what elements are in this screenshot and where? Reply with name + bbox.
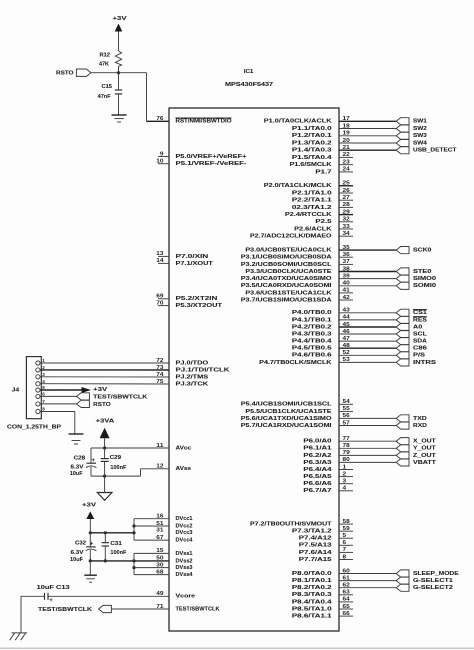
junction DVss rail left [89,559,92,562]
svg-text:G-SELECT2: G-SELECT2 [413,585,454,591]
wire to ground DVss [89,561,91,575]
svg-text:P1.7: P1.7 [315,169,332,175]
svg-text:AVcc: AVcc [176,445,192,451]
junction DVcc rail left [89,531,92,534]
pin 39 P3.4/UCA0TXD/UCA0SIMO [241,273,396,282]
pin 50 DVss2 [156,556,193,565]
pin 12 AVss [156,464,191,473]
pin 23 P1.6/SMCLK [290,160,353,169]
svg-text:41: 41 [343,288,350,294]
J4 pin 4 circle [36,379,45,386]
pin 21 P1.4/TA0.3 [292,145,396,154]
wire J4 pin1 to PJ [40,362,169,364]
svg-text:P3.0/UCB0STE/UCA0CLK: P3.0/UCB0STE/UCA0CLK [245,248,332,254]
svg-text:IC1: IC1 [244,69,254,75]
svg-text:P3.3/UCB0CLK/UCA0STE: P3.3/UCB0CLK/UCA0STE [245,269,331,275]
pin 63 P8.3/TA0.3 [292,590,353,599]
pin 17 P1.0/TA0CLK/ACLK [264,116,396,125]
bus DVss vertical [133,553,135,574]
svg-text:60: 60 [343,568,350,574]
svg-text:CON_1.25TH_BP: CON_1.25TH_BP [7,425,61,431]
analog ground AGND [97,493,112,501]
wire RST0 node [91,72,147,74]
svg-text:100nF: 100nF [110,465,126,471]
svg-text:P7.6/A14: P7.6/A14 [299,550,333,556]
wire DVcc2 stub [134,525,169,527]
svg-text:9: 9 [160,151,164,157]
svg-text:31: 31 [156,528,163,534]
svg-text:CS1: CS1 [413,310,428,316]
connector J4 body [12,357,42,419]
svg-text:AVss: AVss [176,466,192,472]
svg-text:G-SELECT1: G-SELECT1 [413,578,454,584]
wire AVss step [91,469,169,476]
pin 9 P5.0/VREF+/VeREF+ [158,151,247,160]
svg-text:P1.1/TA0.0: P1.1/TA0.0 [292,126,333,132]
svg-text:P5.0/VREF+/VeREF+: P5.0/VREF+/VeREF+ [176,154,248,160]
svg-text:J4: J4 [12,388,20,394]
pin 1 P6.4/A4 [303,464,353,473]
flag X_OUT [396,438,436,445]
svg-text:+: + [49,598,53,604]
svg-text:SIMO0: SIMO0 [413,276,437,282]
flag A0 [396,323,423,330]
svg-text:P8.4/TA0.4: P8.4/TA0.4 [292,599,333,605]
flag SW3 [396,132,427,139]
svg-text:DVss3: DVss3 [176,565,194,571]
capacitor C29 [101,448,127,476]
svg-text:69: 69 [156,294,163,300]
svg-text:PJ.3/TCK: PJ.3/TCK [176,381,210,387]
pin 26 P2.1/TA1.0 [292,188,353,197]
pin 77 P6.0/A0 [303,436,396,445]
pin 71 TEST/SBWTCLK [156,604,220,613]
svg-text:8: 8 [42,407,45,412]
svg-text:DVcc2: DVcc2 [176,523,194,529]
J4 pin 6 circle [36,392,45,399]
svg-text:P7.4/A12: P7.4/A12 [299,536,333,542]
svg-text:P3.5/UCA0RXD/UCA0SOMI: P3.5/UCA0RXD/UCA0SOMI [241,283,332,289]
svg-text:58: 58 [343,519,350,525]
svg-text:P6.1/A1: P6.1/A1 [303,446,332,452]
svg-text:10uF C13: 10uF C13 [37,585,71,591]
svg-text:P4.7/TB0CLK/SMCLK: P4.7/TB0CLK/SMCLK [259,360,332,366]
svg-text:P7.0/XIN: P7.0/XIN [176,254,209,260]
svg-text:P1.5/TA0.4: P1.5/TA0.4 [292,155,333,161]
pin 65 P8.5/TA1.0 [292,604,353,613]
svg-text:P2.2/TA1.1: P2.2/TA1.1 [292,198,333,204]
svg-text:DVcc4: DVcc4 [176,538,194,544]
svg-text:P6.2/A2: P6.2/A2 [303,453,332,459]
pin 66 P8.6/TA1.1 [292,611,353,620]
pin 62 P8.2/TA0.2 [292,583,396,592]
label CON_1.25TH_BP [7,425,61,431]
pin 45 P4.2/TB0.2 [292,322,396,331]
flag SLEEP_MODE [396,570,459,577]
wire J4 pin3 to PJ [40,376,169,378]
svg-text:P2.4/RTCCLK: P2.4/RTCCLK [285,212,332,218]
pin 42 P3.7/UCB1SIMO/UCB1SDA [241,295,353,304]
power +3V J4 [82,387,108,393]
pin 60 P8.0/TA0.0 [292,568,396,577]
svg-text:DVcc3: DVcc3 [176,530,194,536]
svg-text:23: 23 [343,160,350,166]
pin 28 02.3/TA1.2 [292,202,353,211]
pin 11 AVcc [156,443,191,452]
wire J4 pin5 +3V [40,389,82,391]
wire J4 pin8 to ground [40,412,75,435]
J4 pin 8 circle [36,407,45,414]
svg-text:SW1: SW1 [413,119,428,125]
wire DVcc1 stub [134,518,169,520]
svg-text:P/S: P/S [413,353,425,359]
svg-text:33: 33 [343,224,350,230]
svg-text:37: 37 [343,259,350,265]
svg-text:PJ.2/TMS: PJ.2/TMS [176,374,209,380]
svg-text:RES: RES [413,317,427,323]
pin 73 PJ.1/TDI/TCLK [156,365,230,374]
svg-text:P4.2/TB0.2: P4.2/TB0.2 [292,324,333,330]
flag P/S [396,352,425,359]
pin 19 P1.2/TA0.1 [292,131,396,140]
svg-text:P7.2/TB0OUTH/SVMOUT: P7.2/TB0OUTH/SVMOUT [250,522,332,528]
pin 59 P7.3/TA1.2 [292,526,353,535]
svg-text:34: 34 [343,231,350,237]
wire +3V to R12 [118,32,120,52]
svg-text:47K: 47K [99,62,110,68]
svg-text:1: 1 [42,358,45,363]
svg-text:C31: C31 [110,541,122,547]
svg-text:44: 44 [343,315,350,321]
svg-text:24: 24 [343,167,350,173]
svg-text:+3V: +3V [113,16,127,22]
flag SW2 [396,125,427,132]
svg-text:P7.7/A15: P7.7/A15 [299,557,333,563]
wire +3V down [89,519,91,533]
pin 37 P3.2/UCB0SOMI/UCB0SCL [241,259,353,268]
IC1 refdes [244,69,254,75]
pin 10 P5.1/VREF-/VeREF- [156,159,246,168]
svg-text:02.3/TA1.2: 02.3/TA1.2 [292,205,333,211]
J4 pin 1 circle [36,358,45,365]
svg-text:61: 61 [343,575,350,581]
svg-text:19: 19 [343,131,350,137]
svg-text:P4.5/TB0.5: P4.5/TB0.5 [292,346,333,352]
svg-text:26: 26 [343,188,350,194]
svg-text:P7.5/A13: P7.5/A13 [299,543,333,549]
svg-text:35: 35 [343,245,350,251]
wire +3VA down [104,438,106,448]
wire J4 pin2 to PJ [40,369,169,371]
svg-text:4: 4 [343,486,347,492]
J4 pin 2 circle [36,365,45,372]
svg-text:MPS430F5437: MPS430F5437 [225,82,274,88]
svg-text:54: 54 [343,399,350,405]
svg-text:P8.6/TA1.1: P8.6/TA1.1 [292,614,333,620]
flag SW1 [396,118,427,125]
svg-text:P4.6/TB0.6: P4.6/TB0.6 [292,353,333,359]
flag RST0 top-left [56,69,91,77]
svg-text:80: 80 [343,457,350,463]
svg-text:DVcc1: DVcc1 [176,516,194,522]
capacitor C28 [70,448,97,477]
pin 54 P5.4/UCB1SOMI/UCB1SCL [241,399,353,408]
flag RXD [396,422,427,429]
svg-text:P5.3/XT2OUT: P5.3/XT2OUT [176,303,223,309]
pin 47 P4.4/TB0.4 [292,336,396,345]
svg-text:P6.3/A3: P6.3/A3 [303,460,332,466]
pin 25 P2.0/TA1CLK/MCLK [264,181,353,190]
svg-text:TEST/SBWTCLK: TEST/SBWTCLK [93,395,148,401]
ground J4 [69,434,84,444]
junction AVss [103,475,106,478]
pin 35 P3.0/UCB0STE/UCA0CLK [245,245,396,254]
flag Z_OUT [396,452,436,459]
svg-text:14: 14 [156,258,163,264]
svg-text:P3.6/UCB1STE/UCA1CLK: P3.6/UCB1STE/UCA1CLK [245,290,332,296]
wire DVss1 stub [134,552,169,554]
junction node R12/C15 [117,71,120,74]
power +3V top [113,16,127,31]
svg-text:+3V: +3V [82,502,96,508]
svg-text:13: 13 [156,251,163,257]
pin 58 P7.2/TB0OUTH/SVMOUT [250,519,353,528]
pin 15 DVss1 [156,548,193,557]
wire to AGND [104,476,106,492]
pin 36 P3.1/UCB0SIMO/UCB0SDA [241,252,353,261]
pin 52 P4.6/TB0.6 [292,350,396,359]
svg-text:76: 76 [156,116,163,122]
svg-text:SOMI0: SOMI0 [413,283,437,289]
pin 76 RST/NMI/SBWTDIO [156,116,232,125]
svg-text:1: 1 [343,464,347,470]
pin 24 P1.7 [315,167,353,176]
svg-text:6: 6 [343,540,347,546]
flag TEST/SBWTCLK J4 [77,393,148,401]
svg-text:P8.1/TA0.1: P8.1/TA0.1 [292,578,333,584]
svg-text:C29: C29 [110,455,122,461]
svg-text:P2.6/ACLK: P2.6/ACLK [294,226,332,232]
svg-text:DVss4: DVss4 [176,572,194,578]
ground DVss [84,575,97,582]
svg-text:P7.1/XOUT: P7.1/XOUT [176,261,214,267]
svg-text:3: 3 [343,479,347,485]
svg-text:C32: C32 [75,541,87,547]
svg-text:SCK0: SCK0 [413,248,432,254]
svg-text:7: 7 [42,399,45,404]
svg-text:Y_OUT: Y_OUT [413,446,436,452]
pin 38 P3.3/UCB0CLK/UCA0STE [245,266,396,275]
wire J4 pin7 [40,403,77,405]
svg-text:P4.1/TB0.1: P4.1/TB0.1 [292,317,333,323]
J4 pin 3 circle [36,372,45,379]
J4 pin 7 circle [36,399,45,406]
svg-text:Vcore: Vcore [176,594,196,600]
flag RES [396,316,427,323]
svg-text:10uF: 10uF [70,471,83,477]
svg-text:8: 8 [343,554,347,560]
svg-text:57: 57 [343,420,350,426]
wire chassis down [20,596,22,633]
svg-text:SW3: SW3 [413,133,428,139]
pin 49 Vcore [156,591,196,600]
svg-text:RSTO: RSTO [93,402,111,408]
wire AVcc rail [91,447,169,449]
svg-text:P8.5/TA1.0: P8.5/TA1.0 [292,606,333,612]
svg-text:65: 65 [343,604,350,610]
svg-text:P5.7/UCA1RXD/UCA1SOMI: P5.7/UCA1RXD/UCA1SOMI [241,423,332,429]
junction DVss bus 30 [132,566,135,569]
svg-text:USB_DETECT: USB_DETECT [413,148,457,154]
svg-text:46: 46 [343,329,350,335]
flag Y_OUT [396,445,436,452]
ground C15 [112,115,127,122]
resistor R12 [99,51,122,68]
svg-text:P1.6/SMCLK: P1.6/SMCLK [290,162,333,168]
pin 61 P8.1/TA0.1 [292,575,396,584]
svg-text:47nF: 47nF [98,94,111,100]
svg-text:32: 32 [343,217,350,223]
svg-text:27: 27 [343,195,350,201]
pin 51 DVcc2 [156,521,193,530]
capacitor C15 [98,73,123,115]
pin 41 P3.6/UCB1STE/UCA1CLK [245,288,353,297]
pin 2 P6.5/A5 [303,471,353,480]
svg-text:6.3V: 6.3V [71,550,84,556]
svg-text:+: + [90,542,94,548]
pin 53 P4.7/TB0CLK/SMCLK [259,357,396,366]
pin 69 P5.2/XT2IN [156,294,217,303]
pin 16 DVcc1 [156,514,193,523]
pin 64 P8.4/TA0.4 [292,597,353,606]
svg-text:SW2: SW2 [413,126,428,132]
flag USB_DETECT [396,147,457,154]
svg-text:79: 79 [343,450,350,456]
svg-text:4: 4 [42,379,45,384]
flag STE0 [396,268,432,275]
pin 46 P4.3/TB0.3 [292,329,396,338]
svg-text:P2.5: P2.5 [315,219,332,225]
flag SW4 [396,139,427,146]
flag SCK0 [396,247,432,254]
svg-text:P6.6/A6: P6.6/A6 [303,481,332,487]
pin 75 PJ.3/TCK [156,379,209,388]
junction DVss bus 50 [132,559,135,562]
svg-text:TXD: TXD [413,416,427,422]
pin 56 P5.6/UCA1TXD/UCA1SIMO [241,413,396,422]
junction AVcc C29 [103,446,106,449]
svg-text:55: 55 [343,406,350,412]
svg-text:P6.7/A7: P6.7/A7 [303,488,332,494]
capacitor C13 [21,585,169,604]
junction DVss C31 bottom [104,559,107,562]
pin 67 DVcc4 [156,535,193,544]
svg-text:22: 22 [343,152,350,158]
svg-text:TEST/SBWTCLK: TEST/SBWTCLK [176,606,221,612]
svg-text:P6.0/A0: P6.0/A0 [303,439,332,445]
pin 14 P7.1/XOUT [156,258,213,267]
page edge bottom [0,647,474,649]
svg-text:38: 38 [343,266,350,272]
svg-text:59: 59 [343,526,350,532]
wire DVcc4 stub [134,539,169,541]
svg-text:P4.4/TB0.4: P4.4/TB0.4 [292,339,333,345]
svg-text:+: + [92,458,96,464]
svg-text:P3.7/UCB1SIMO/UCB1SDA: P3.7/UCB1SIMO/UCB1SDA [241,297,333,303]
svg-text:INTRS: INTRS [413,360,436,366]
flag SDA [396,338,427,345]
wire J4 pin6 [40,395,77,397]
pin 70 P5.3/XT2OUT [156,300,222,309]
junction DVcc C31 top [104,531,107,534]
wire DVcc rail row31 [90,532,134,534]
svg-text:10: 10 [156,159,163,165]
svg-text:Z_OUT: Z_OUT [413,453,436,459]
wire DVss3 stub [134,567,169,569]
svg-text:P8.0/TA0.0: P8.0/TA0.0 [292,571,333,577]
wire DVss4 stub [134,574,169,576]
junction DVcc bus 51 [132,524,135,527]
pin 29 P2.4/RTCCLK [285,209,353,218]
pin 30 DVss3 [156,562,193,571]
flag SIMO0 [396,275,437,282]
pin 27 P2.2/TA1.1 [292,195,353,204]
svg-text:R12: R12 [100,53,111,59]
svg-text:A0: A0 [413,324,423,330]
wire TEST to pin71 [111,608,169,610]
pin 40 P3.5/UCA0RXD/UCA0SOMI [241,281,396,290]
pin 13 P7.0/XIN [156,251,208,260]
svg-text:78: 78 [343,443,350,449]
wire R12 to node [118,66,120,72]
svg-text:P3.1/UCB0SIMO/UCB0SDA: P3.1/UCB0SIMO/UCB0SDA [241,255,333,261]
flag VBATT [396,459,436,466]
svg-text:63: 63 [343,590,350,596]
svg-text:29: 29 [343,209,350,215]
svg-text:6.3V: 6.3V [71,464,84,470]
power +3V DVcc [82,502,96,519]
svg-text:43: 43 [343,308,350,314]
svg-text:SDA: SDA [413,339,428,345]
pin 20 P1.3/TA0.2 [292,138,396,147]
svg-text:P8.3/TA0.3: P8.3/TA0.3 [292,592,333,598]
svg-text:36: 36 [343,252,350,258]
svg-text:42: 42 [343,295,350,301]
svg-text:P5.6/UCA1TXD/UCA1SIMO: P5.6/UCA1TXD/UCA1SIMO [241,416,332,422]
svg-text:21: 21 [343,145,350,151]
svg-text:P5.5/UCB1CLK/UCA1STE: P5.5/UCB1CLK/UCA1STE [245,409,331,415]
svg-text:56: 56 [343,413,350,419]
svg-text:P5.2/XT2IN: P5.2/XT2IN [176,296,218,302]
flag C86 [396,345,428,352]
svg-text:C28: C28 [74,456,86,462]
svg-text:P8.2/TA0.2: P8.2/TA0.2 [292,585,333,591]
svg-text:RST/NMI/SBWTDIO: RST/NMI/SBWTDIO [176,119,232,125]
svg-text:DVss2: DVss2 [176,558,194,564]
pin 72 PJ.0/TDO [156,358,208,367]
svg-text:53: 53 [343,357,350,363]
svg-text:P7.3/TA1.2: P7.3/TA1.2 [292,529,333,535]
svg-text:P6.4/A4: P6.4/A4 [303,467,332,473]
svg-text:P5.4/UCB1SOMI/UCB1SCL: P5.4/UCB1SOMI/UCB1SCL [241,402,332,408]
pin 44 P4.1/TB0.1 [292,315,396,324]
svg-text:STE0: STE0 [413,269,432,275]
svg-text:P1.3/TA0.2: P1.3/TA0.2 [292,140,333,146]
pin 18 P1.1/TA0.0 [292,123,396,132]
flag INTRS [396,359,436,366]
pin 6 P7.5/A13 [299,540,353,549]
svg-text:6: 6 [42,392,45,397]
